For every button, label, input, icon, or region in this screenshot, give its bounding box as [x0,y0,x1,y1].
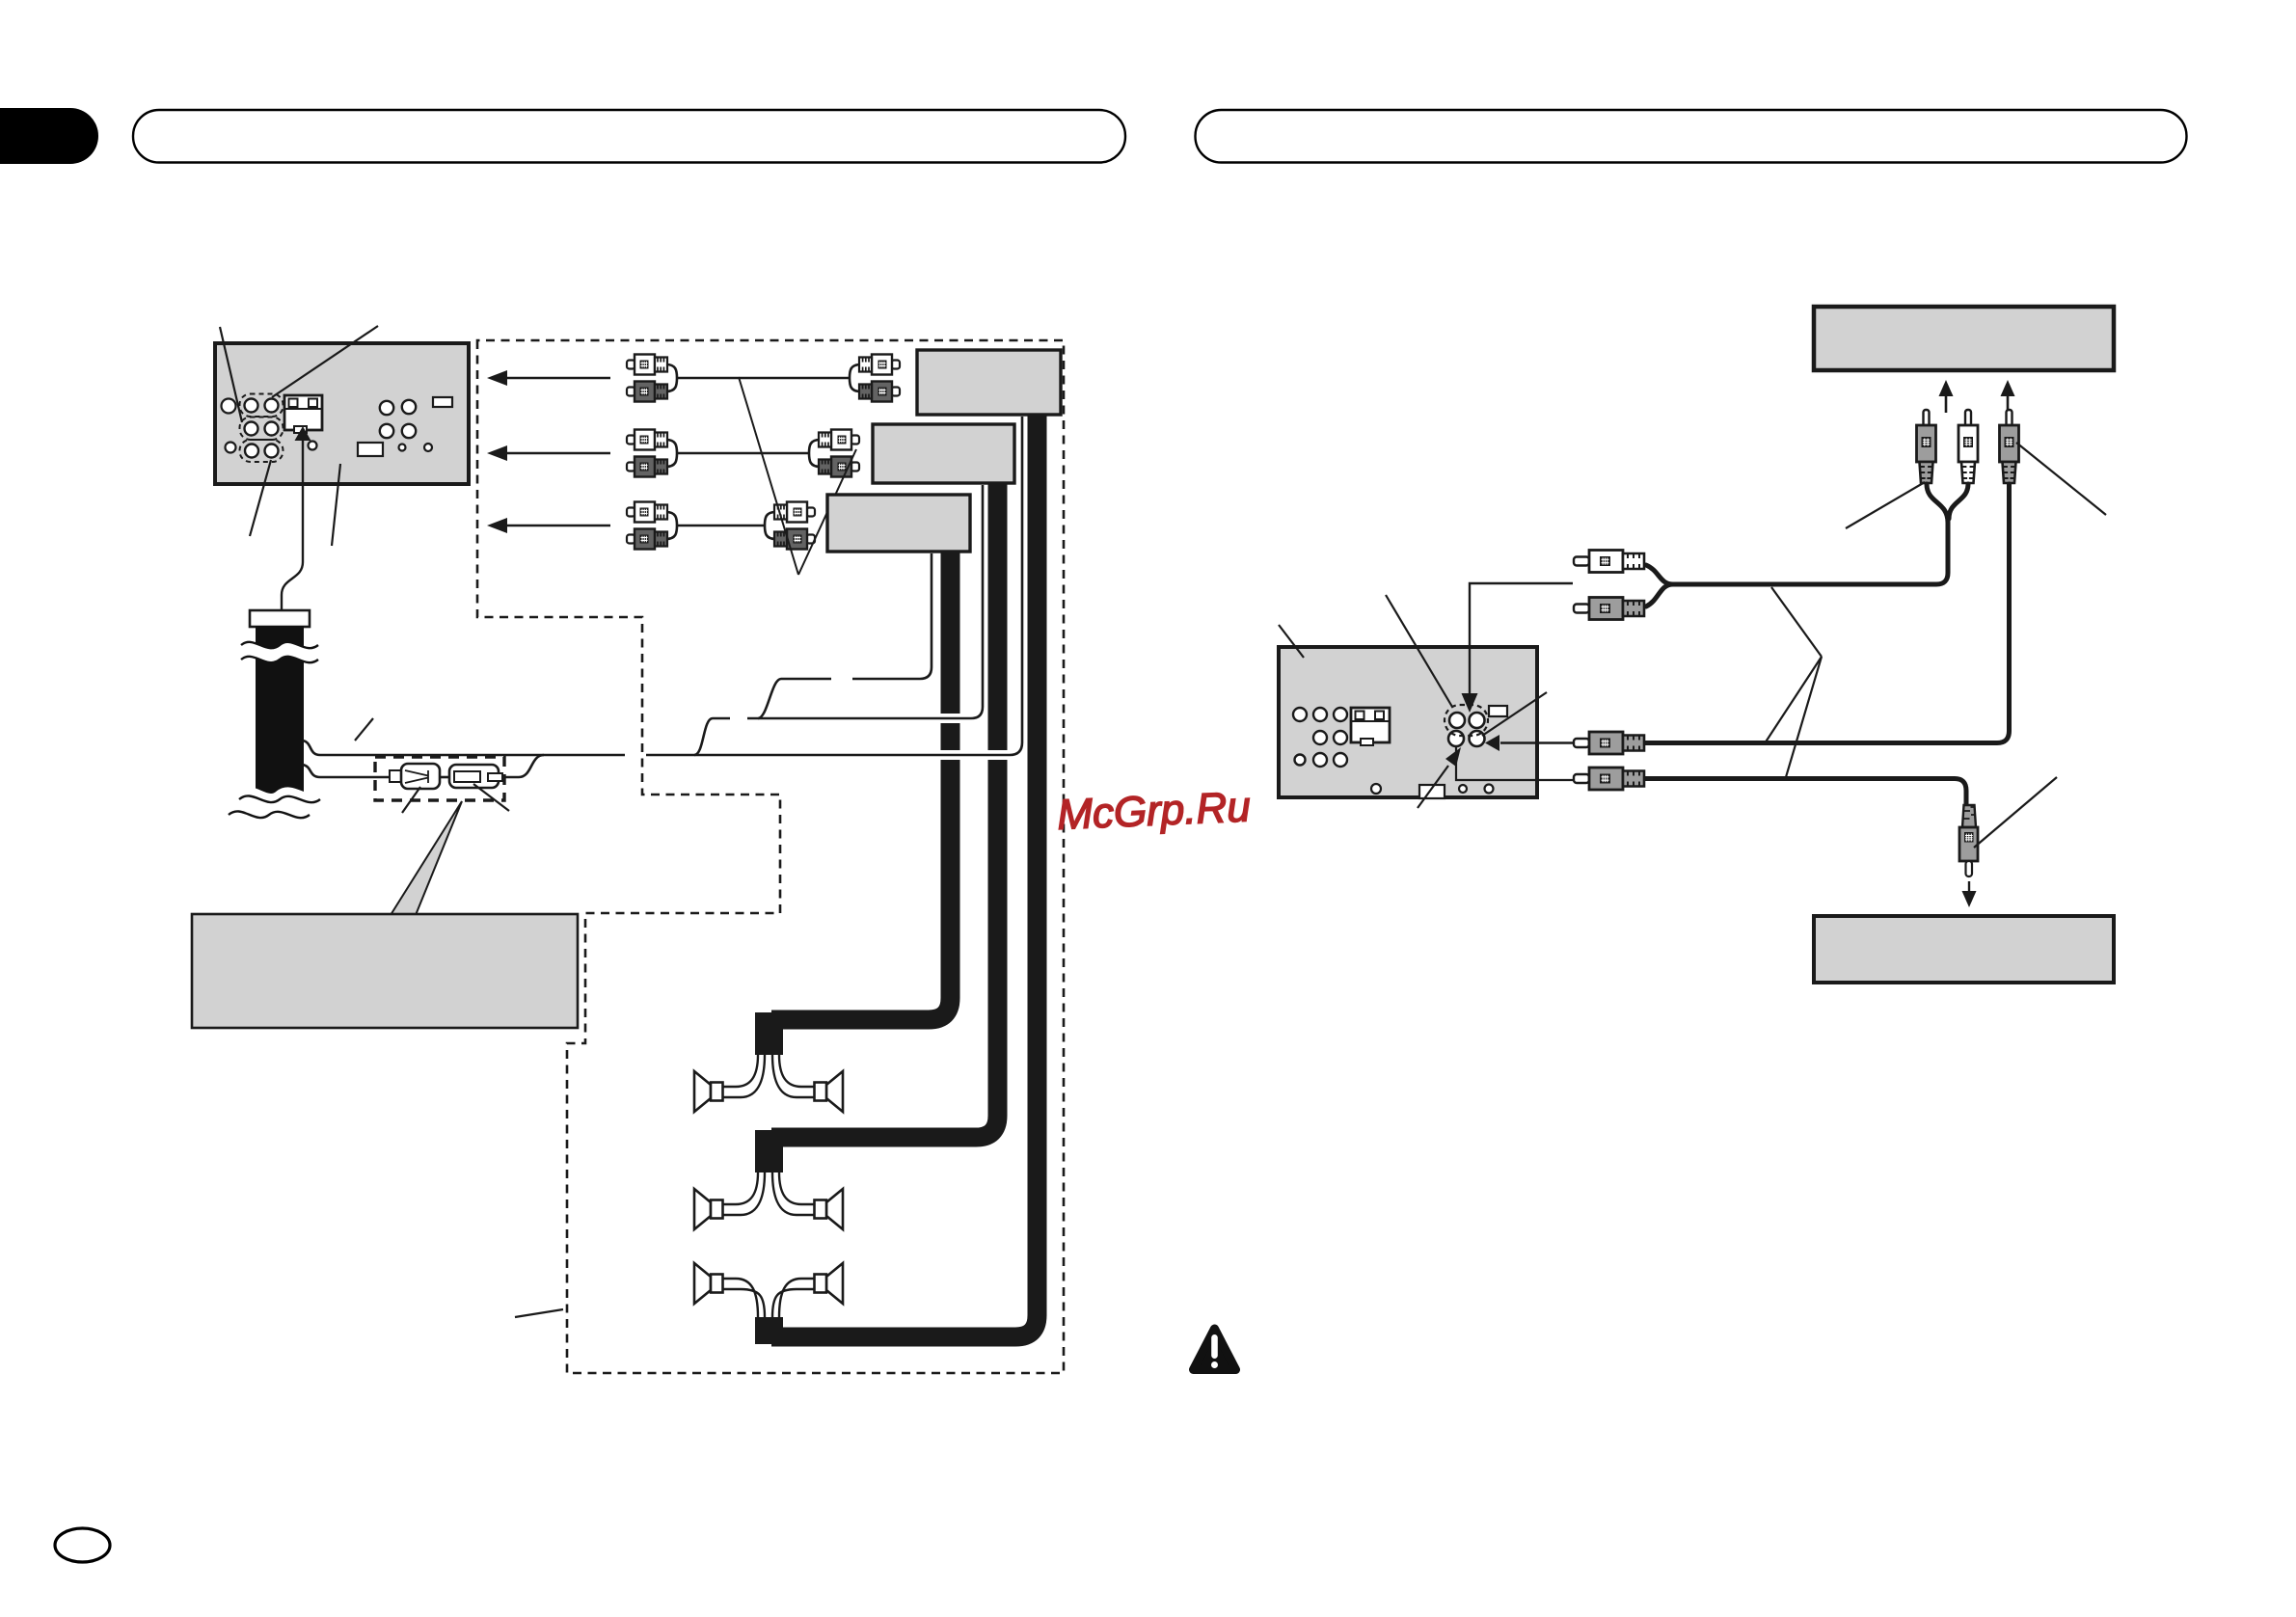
svg-text:McGrp.Ru: McGrp.Ru [1056,783,1251,839]
